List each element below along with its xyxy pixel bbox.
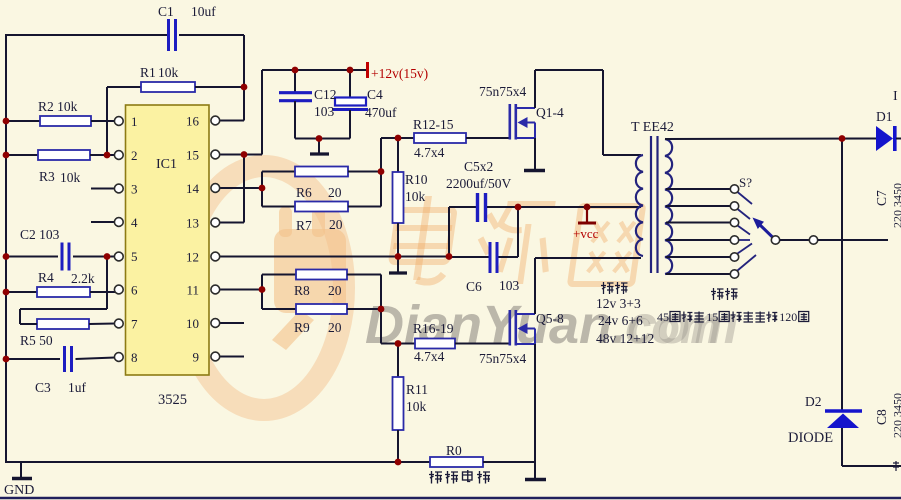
svg-text:8: 8 [131,350,138,365]
svg-text:IC1: IC1 [156,157,177,172]
svg-text:48v 12+12: 48v 12+12 [596,331,654,346]
svg-text:220 3450: 220 3450 [891,393,901,438]
svg-text:7: 7 [131,317,138,332]
svg-text:C5x2: C5x2 [464,159,493,174]
svg-text:120: 120 [779,310,797,324]
svg-text:R5 50: R5 50 [20,333,53,348]
svg-text:C12: C12 [314,87,337,102]
svg-text:C6: C6 [466,279,482,294]
svg-text:16: 16 [186,114,200,129]
svg-text:24v 6+6: 24v 6+6 [598,313,643,328]
svg-text:I: I [893,89,898,104]
svg-text:10k: 10k [158,65,179,80]
svg-text:R7: R7 [296,218,312,233]
svg-text:C3: C3 [35,380,51,395]
svg-text:75n75x4: 75n75x4 [479,84,527,99]
svg-text:4.7x4: 4.7x4 [414,349,445,364]
svg-text:103: 103 [499,278,520,293]
svg-text:10uf: 10uf [191,4,216,19]
svg-text:10k: 10k [60,170,81,185]
svg-text:D1: D1 [876,109,893,124]
svg-text:R3: R3 [39,169,55,184]
svg-text:13: 13 [186,216,199,231]
svg-text:1: 1 [131,114,138,129]
svg-text:10k: 10k [406,399,427,414]
svg-text:10: 10 [186,316,199,331]
svg-text:15: 15 [706,310,718,324]
svg-text:C4: C4 [367,87,383,102]
svg-text:6: 6 [131,283,138,298]
svg-text:Q1-4: Q1-4 [536,105,564,120]
svg-text:9: 9 [193,350,200,365]
svg-text:C8: C8 [874,409,889,425]
svg-text:1uf: 1uf [68,380,87,395]
svg-text:R12-15: R12-15 [413,117,454,132]
svg-text:20: 20 [328,320,342,335]
svg-text:12v 3+3: 12v 3+3 [596,296,641,311]
svg-text:+12v(15v): +12v(15v) [371,66,428,81]
svg-text:2200uf/50V: 2200uf/50V [446,176,511,191]
svg-text:GND: GND [4,483,34,498]
svg-text:DIODE: DIODE [788,430,833,446]
svg-text:T EE42: T EE42 [631,120,674,135]
svg-text:R9: R9 [294,320,310,335]
svg-text:45: 45 [657,310,669,324]
svg-text:R10: R10 [405,172,428,187]
svg-text:220 3450: 220 3450 [891,183,901,228]
svg-text:R8: R8 [294,283,310,298]
svg-text:C1: C1 [158,4,174,19]
svg-text:C2 103: C2 103 [20,227,60,242]
svg-text:R1: R1 [140,65,156,80]
svg-text:75n75x4: 75n75x4 [479,351,527,366]
svg-text:D2: D2 [805,394,822,409]
svg-text:Q5-8: Q5-8 [536,311,564,326]
svg-text:3: 3 [131,182,138,197]
svg-text:R11: R11 [406,382,428,397]
svg-text:R6: R6 [296,185,312,200]
svg-text:2: 2 [131,148,138,163]
svg-text:R0: R0 [446,443,462,458]
svg-text:C7: C7 [874,190,889,206]
svg-text:20: 20 [328,185,342,200]
svg-text:4: 4 [131,215,138,230]
svg-text:5: 5 [131,249,138,264]
svg-text:15: 15 [186,148,199,163]
svg-text:2.2k: 2.2k [71,271,95,286]
svg-text:14: 14 [186,181,200,196]
svg-text:10k: 10k [405,189,426,204]
svg-text:R16-19: R16-19 [413,321,454,336]
svg-text:R2 10k: R2 10k [38,99,78,114]
svg-text:4.7x4: 4.7x4 [414,145,445,160]
svg-text:20: 20 [329,217,343,232]
svg-text:103: 103 [314,104,335,119]
svg-text:20: 20 [328,283,342,298]
svg-text:470uf: 470uf [365,105,397,120]
svg-text:12: 12 [186,250,199,265]
svg-text:+vcc: +vcc [573,226,599,241]
svg-text:S?: S? [739,175,752,190]
svg-text:11: 11 [186,283,199,298]
svg-text:3525: 3525 [158,392,187,408]
svg-text:R4: R4 [38,270,54,285]
